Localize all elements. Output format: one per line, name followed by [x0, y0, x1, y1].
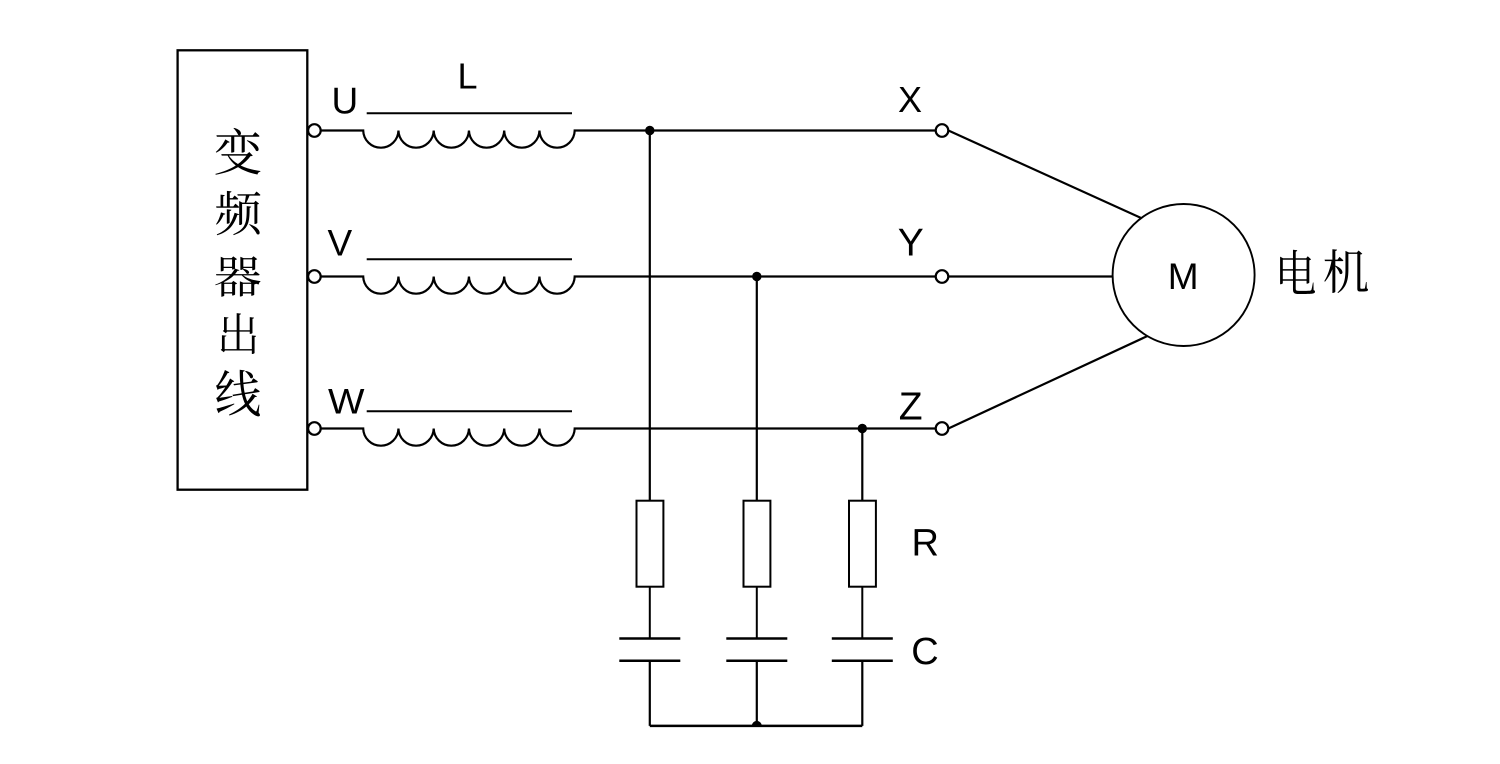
terminal X — [936, 124, 949, 137]
text 器 — [215, 256, 260, 296]
svg-text:Z: Z — [899, 386, 923, 429]
svg-text:W: W — [328, 382, 365, 421]
capacitor C3 plates — [832, 639, 893, 661]
wire C3 to bus — [861, 661, 863, 726]
wire U row with inductor coil — [321, 131, 936, 148]
svg-text:L: L — [458, 55, 478, 96]
inductor L3 bar — [367, 410, 572, 412]
terminal W — [308, 422, 321, 435]
wire C2 to bus — [756, 661, 758, 726]
svg-text:U: U — [332, 81, 359, 122]
wire Z to motor — [948, 334, 1152, 429]
text 频 — [216, 191, 260, 235]
node U junction dot — [645, 126, 654, 135]
inductor L2 bar — [367, 258, 572, 260]
motor circle M — [1113, 204, 1255, 346]
resistor R2 — [744, 501, 771, 587]
svg-text:C: C — [911, 631, 938, 673]
wire R3 to C3 — [861, 587, 863, 639]
bus junction half-dot — [752, 721, 762, 726]
wire R2 to C2 — [756, 587, 758, 639]
svg-text:M: M — [1168, 256, 1199, 297]
svg-text:V: V — [328, 222, 353, 263]
text 电 — [1280, 250, 1315, 294]
text 出 — [221, 313, 256, 354]
node V junction dot — [752, 272, 761, 281]
text 机 — [1324, 249, 1368, 293]
wire vertical drop from node U — [649, 131, 651, 501]
wire V row with inductor coil — [321, 277, 936, 294]
text 变 — [215, 128, 260, 175]
capacitor C2 plates — [726, 639, 787, 661]
capacitor C1 plates — [619, 639, 680, 661]
wire W row with inductor coil — [321, 429, 936, 446]
wire C1 to bus — [649, 661, 651, 726]
svg-text:X: X — [898, 79, 922, 120]
text 线 — [216, 370, 260, 417]
terminal U — [308, 124, 321, 137]
svg-text:R: R — [912, 523, 939, 565]
wire vertical drop from node V — [756, 277, 758, 501]
wire bottom bus — [650, 725, 863, 728]
wire Y to motor — [948, 275, 1113, 277]
wire vertical drop from node Z — [861, 429, 863, 501]
terminal Z — [936, 422, 949, 435]
resistor R1 — [637, 501, 664, 587]
wire X to motor — [948, 131, 1144, 220]
terminal V — [308, 270, 321, 283]
wire R1 to C1 — [649, 587, 651, 639]
inductor L1 bar — [367, 112, 572, 114]
inverter output box — [178, 50, 308, 489]
terminal Y — [936, 270, 949, 283]
svg-text:Y: Y — [898, 222, 924, 265]
resistor R3 — [849, 501, 876, 587]
node Z junction dot — [858, 424, 867, 433]
